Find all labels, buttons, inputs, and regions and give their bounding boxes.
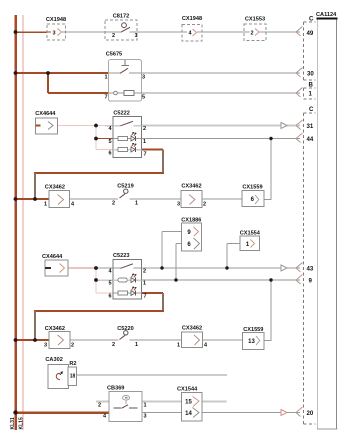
svg-text:C: C — [309, 16, 314, 23]
svg-text:C5675: C5675 — [106, 52, 122, 58]
svg-text:CX1544: CX1544 — [177, 387, 198, 393]
svg-text:30: 30 — [307, 70, 314, 77]
svg-text:CX4644: CX4644 — [35, 111, 56, 117]
svg-text:R2: R2 — [69, 361, 76, 367]
svg-text:CX3462: CX3462 — [181, 184, 201, 190]
svg-text:5: 5 — [142, 95, 145, 101]
svg-text:20: 20 — [307, 410, 314, 417]
svg-text:1: 1 — [143, 281, 146, 287]
svg-text:4: 4 — [204, 343, 208, 349]
svg-text:3: 3 — [143, 414, 146, 420]
svg-text:43: 43 — [307, 265, 314, 272]
svg-text:7: 7 — [104, 95, 107, 101]
svg-text:1: 1 — [44, 202, 47, 208]
svg-text:CX4644: CX4644 — [42, 254, 63, 260]
svg-text:CX1948: CX1948 — [182, 16, 202, 22]
svg-text:B: B — [309, 82, 314, 89]
svg-text:4: 4 — [103, 414, 107, 420]
svg-text:9: 9 — [309, 277, 313, 284]
svg-text:4: 4 — [108, 269, 112, 275]
svg-text:1: 1 — [135, 342, 138, 348]
svg-text:5: 5 — [108, 281, 111, 287]
svg-text:C5222: C5222 — [113, 111, 129, 117]
svg-text:3: 3 — [177, 202, 180, 208]
svg-text:CX3462: CX3462 — [182, 326, 202, 332]
svg-text:C5219: C5219 — [117, 184, 133, 190]
svg-text:44: 44 — [307, 136, 314, 143]
svg-text:1: 1 — [135, 201, 138, 207]
svg-text:KL31: KL31 — [10, 417, 16, 429]
svg-text:7: 7 — [143, 152, 146, 158]
svg-text:3: 3 — [52, 30, 55, 36]
svg-text:CX1559: CX1559 — [243, 327, 263, 333]
svg-text:14: 14 — [185, 411, 192, 417]
svg-text:2: 2 — [112, 342, 115, 348]
svg-text:1: 1 — [177, 343, 180, 349]
svg-text:CX3462: CX3462 — [45, 326, 65, 332]
svg-text:15: 15 — [185, 399, 192, 405]
svg-text:C: C — [309, 106, 314, 113]
svg-text:CX1554: CX1554 — [240, 231, 261, 237]
svg-text:13: 13 — [248, 339, 255, 345]
svg-text:2: 2 — [143, 126, 146, 132]
svg-text:CX1886: CX1886 — [181, 218, 201, 224]
svg-text:CB369: CB369 — [107, 386, 124, 392]
svg-text:7: 7 — [143, 294, 146, 300]
svg-text:5: 5 — [108, 139, 111, 145]
svg-text:2: 2 — [203, 202, 206, 208]
svg-text:1: 1 — [134, 33, 137, 39]
svg-text:3: 3 — [142, 75, 145, 81]
svg-text:49: 49 — [307, 30, 314, 37]
svg-text:4: 4 — [188, 31, 192, 37]
svg-text:C5220: C5220 — [117, 326, 133, 332]
svg-text:31: 31 — [307, 123, 314, 130]
svg-text:6: 6 — [108, 294, 111, 300]
svg-text:18: 18 — [70, 374, 76, 380]
svg-text:C8172: C8172 — [113, 14, 129, 20]
svg-text:2: 2 — [71, 343, 74, 349]
svg-text:KL15: KL15 — [18, 417, 24, 429]
svg-text:1: 1 — [143, 139, 146, 145]
svg-text:CA1124: CA1124 — [316, 12, 337, 18]
svg-text:1: 1 — [104, 75, 107, 81]
svg-text:CA302: CA302 — [45, 357, 62, 363]
svg-text:CX3462: CX3462 — [45, 185, 65, 191]
svg-text:C5223: C5223 — [113, 253, 129, 259]
svg-text:1: 1 — [143, 403, 146, 409]
svg-text:3: 3 — [44, 343, 47, 349]
svg-text:1: 1 — [309, 90, 313, 97]
svg-text:4: 4 — [108, 126, 112, 132]
svg-text:2: 2 — [98, 403, 101, 409]
svg-text:2: 2 — [112, 201, 115, 207]
svg-text:2: 2 — [112, 33, 115, 39]
svg-text:CX1559: CX1559 — [242, 185, 262, 191]
svg-text:CX1948: CX1948 — [46, 17, 66, 23]
svg-text:2: 2 — [250, 30, 253, 36]
svg-text:2: 2 — [143, 269, 146, 275]
svg-text:6: 6 — [108, 151, 111, 157]
svg-text:4: 4 — [71, 202, 75, 208]
svg-text:CX1553: CX1553 — [245, 17, 265, 23]
